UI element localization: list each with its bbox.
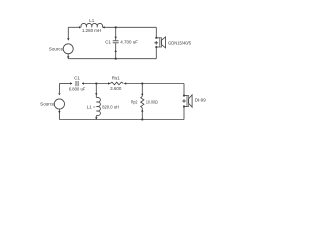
node: junction dot top wire / C1 xyxy=(115,26,117,28)
svg-text:GDN15/40/5: GDN15/40/5 xyxy=(168,40,191,45)
arrow into Rp2 bottom xyxy=(141,109,143,111)
capacitor C1 (bottom, series horizontal) xyxy=(76,81,78,86)
arrow into Rp2 top xyxy=(141,94,143,96)
svg-text:C1: C1 xyxy=(74,75,80,80)
wire: source bottom to bottom wire xyxy=(58,109,60,119)
wire: left column corner down to source xyxy=(58,84,60,94)
arrow into C1 from below xyxy=(115,50,117,52)
arrow into L1 right xyxy=(102,26,104,28)
source V2 (bottom) xyxy=(54,99,64,109)
wire: cap to Rs1 xyxy=(82,83,110,85)
arrow into C1 from above xyxy=(115,37,117,39)
source V1 (top) xyxy=(63,44,73,54)
wire: C1 lower lead xyxy=(115,43,117,59)
node: junction dot Rp2 top xyxy=(141,83,143,85)
wire: L1 upper lead xyxy=(95,84,97,98)
wire: Rp2 upper lead xyxy=(141,84,143,97)
wire: Rs1 to right rail xyxy=(124,83,184,85)
arrow into source top xyxy=(67,38,69,40)
svg-text:820.0 uH: 820.0 uH xyxy=(102,104,119,109)
wire: right rail upper xyxy=(183,84,185,96)
wire: top wire left segment xyxy=(68,26,79,28)
wire: left column from top corner down to source xyxy=(67,27,69,40)
wire: C1 upper lead xyxy=(115,27,117,40)
arrow below source (bottom circuit) xyxy=(58,111,60,113)
arrow into L1 top (bottom circuit) xyxy=(95,93,97,95)
wire: source bottom to bottom wire xyxy=(67,54,69,59)
capacitor C1 (top, vertical) xyxy=(113,27,119,58)
svg-text:Dt-99: Dt-99 xyxy=(195,97,207,102)
speaker Dt-99 symbol xyxy=(184,95,192,107)
svg-text:C1: C1 xyxy=(105,40,111,45)
wire: Rp2 lower lead xyxy=(141,108,143,120)
inductor L1 (bottom, vertical coil) xyxy=(96,84,100,120)
svg-text:4.700 uF: 4.700 uF xyxy=(120,40,138,45)
arrow into source top (bottom circuit) xyxy=(58,93,60,95)
wire: right rail lower (- terminal to bottom wire) xyxy=(155,47,157,59)
wire: right rail lower xyxy=(183,106,185,119)
resistor Rp2 (vertical zigzag) xyxy=(141,84,144,120)
plus sign (bottom speaker) xyxy=(182,99,186,103)
wire: top wire: corner to cap xyxy=(59,83,72,85)
arrow into Rs1 right xyxy=(124,82,126,84)
node: junction dot Rp2 bottom xyxy=(141,119,143,121)
svg-text:6.800 uF: 6.800 uF xyxy=(69,87,86,92)
svg-text:Source: Source xyxy=(49,46,64,51)
node: junction dot bottom wire / C1 xyxy=(115,58,117,60)
wire: bottom wire xyxy=(59,119,184,121)
C1 plates xyxy=(113,40,119,42)
resistor Rs1 (horizontal zigzag) xyxy=(110,82,123,85)
speaker GDN15/40/5 symbol xyxy=(156,37,165,48)
arrow into L1 left xyxy=(79,26,81,28)
svg-text:1.280 mH: 1.280 mH xyxy=(82,28,101,33)
arrow below source into bottom wire xyxy=(67,56,69,58)
svg-text:Rp2: Rp2 xyxy=(131,99,138,104)
wire: L1 lower lead xyxy=(95,116,97,120)
arrow into C1 right (bottom) xyxy=(82,82,84,84)
svg-text:L1 =: L1 = xyxy=(87,104,96,109)
wire: top wire middle segment (inductor to right corner) xyxy=(103,26,157,28)
node: junction dot L1 branch xyxy=(95,83,97,85)
speaker GDN15/40/5 terminals xyxy=(155,37,157,39)
svg-text:L1: L1 xyxy=(89,18,95,23)
speaker Dt-99 terminals xyxy=(183,95,185,97)
arrow into Rs1 left xyxy=(108,82,110,84)
inductor L1 (top, horizontal coil) xyxy=(81,23,103,27)
wire: bottom wire xyxy=(68,58,156,60)
wire: right rail upper (corner to + terminal) xyxy=(155,27,157,38)
svg-text:Source: Source xyxy=(40,102,55,107)
arrow into C1 left (bottom) xyxy=(70,82,72,84)
plus sign xyxy=(154,41,158,45)
arrow into bottom wire from L1 xyxy=(95,117,97,119)
svg-text:10.00Ω: 10.00Ω xyxy=(146,100,158,105)
svg-text:3.600: 3.600 xyxy=(110,86,122,91)
svg-text:Rs1: Rs1 xyxy=(112,75,120,80)
